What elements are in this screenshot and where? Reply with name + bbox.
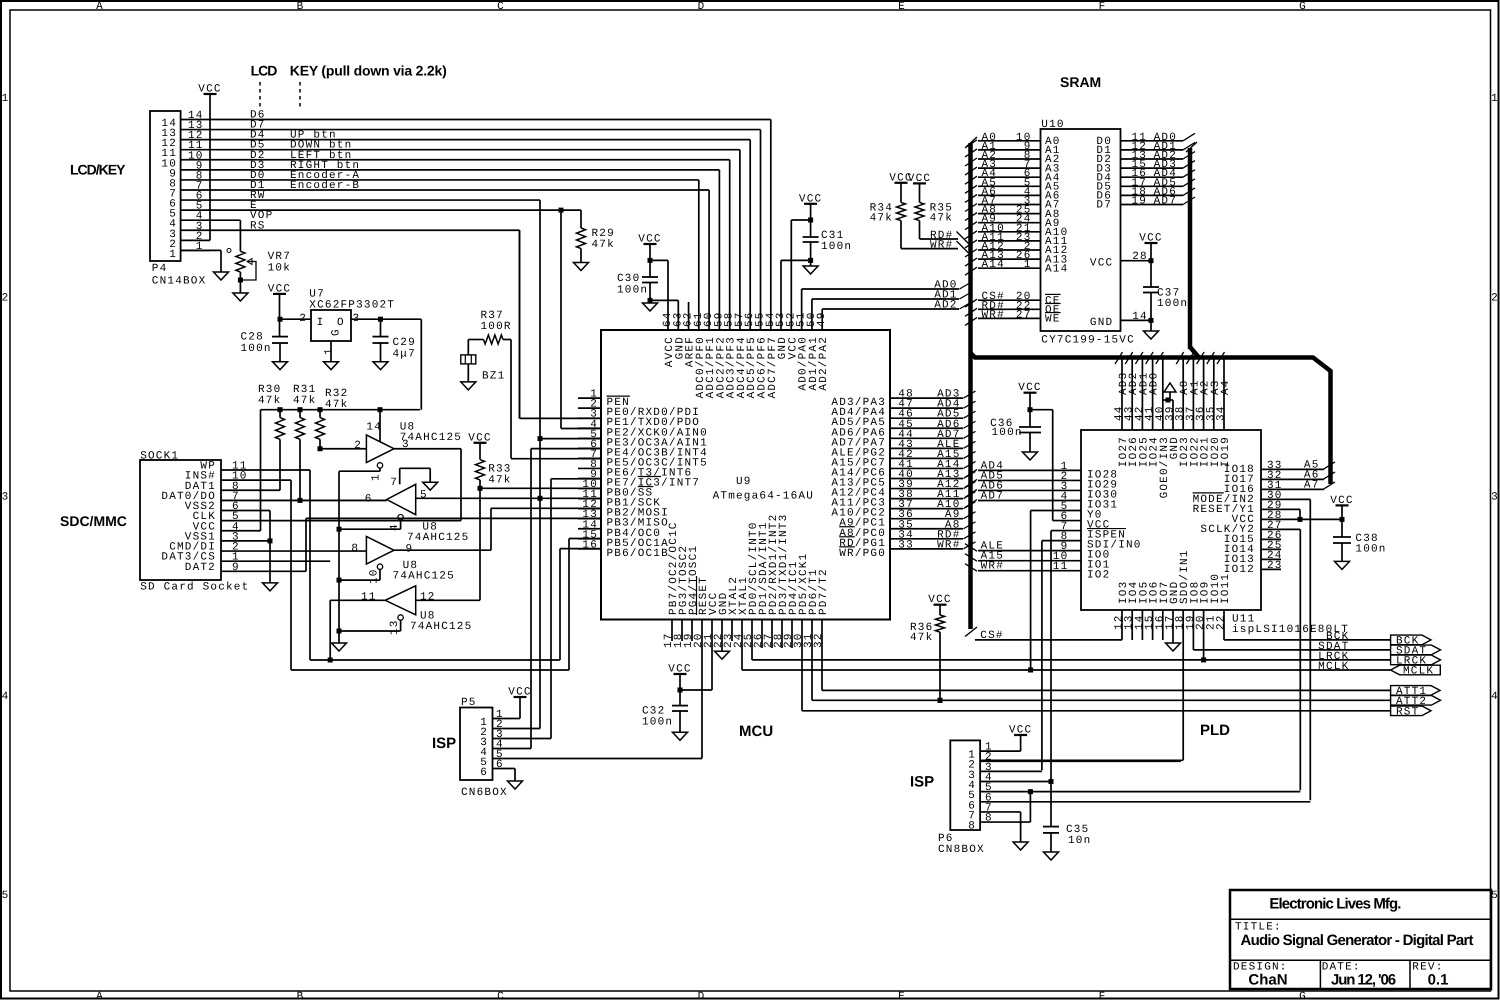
svg-text:27: 27 (1016, 309, 1032, 321)
svg-text:14: 14 (1132, 311, 1148, 323)
svg-text:E: E (898, 991, 906, 1000)
svg-text:ISP: ISP (432, 735, 456, 752)
svg-text:AD0: AD0 (1149, 372, 1161, 395)
svg-text:XC62FP3302T: XC62FP3302T (309, 300, 395, 312)
svg-text:MCLK: MCLK (1318, 661, 1349, 673)
svg-text:C28: C28 (241, 332, 264, 344)
svg-text:2: 2 (354, 440, 362, 452)
svg-text:G: G (1299, 1, 1307, 13)
svg-text:10n: 10n (1068, 835, 1091, 847)
svg-text:12: 12 (420, 592, 436, 604)
svg-text:AD2/PA2: AD2/PA2 (818, 336, 830, 391)
svg-text:A4: A4 (1220, 379, 1232, 395)
svg-text:GND: GND (1090, 317, 1113, 329)
svg-text:CY7C199-15VC: CY7C199-15VC (1041, 335, 1135, 347)
svg-text:74AHC125: 74AHC125 (410, 621, 472, 633)
svg-text:U9: U9 (736, 476, 752, 488)
svg-text:SDC/MMC: SDC/MMC (60, 513, 127, 529)
svg-text:WR#: WR# (982, 309, 1005, 321)
svg-text:4: 4 (1491, 691, 1499, 703)
svg-text:LCD: LCD (251, 63, 278, 79)
svg-text:Electronic Lives Mfg.: Electronic Lives Mfg. (1269, 896, 1401, 913)
svg-text:8: 8 (351, 543, 359, 555)
svg-text:47k: 47k (488, 475, 511, 487)
svg-text:WR/PG0: WR/PG0 (839, 548, 886, 560)
svg-text:WR#: WR# (930, 240, 953, 252)
svg-text:CS#: CS# (980, 630, 1003, 642)
svg-text:P4: P4 (152, 263, 168, 275)
svg-text:D: D (698, 1, 706, 13)
svg-text:2: 2 (1491, 292, 1499, 304)
svg-text:4μ7: 4μ7 (393, 349, 416, 361)
svg-text:8: 8 (968, 821, 976, 833)
svg-text:PLD: PLD (1200, 722, 1230, 739)
svg-text:7: 7 (390, 477, 398, 489)
svg-text:74AHC125: 74AHC125 (407, 532, 469, 544)
svg-text:1: 1 (1024, 259, 1032, 271)
svg-text:RST: RST (1396, 706, 1419, 718)
svg-text:A14: A14 (982, 259, 1005, 271)
svg-text:4: 4 (389, 523, 401, 531)
svg-text:47k: 47k (293, 395, 316, 407)
svg-text:5: 5 (1491, 890, 1499, 902)
svg-text:11: 11 (361, 592, 377, 604)
svg-text:B: B (297, 1, 305, 13)
svg-text:1: 1 (371, 473, 383, 481)
svg-text:47k: 47k (870, 213, 893, 225)
svg-text:3: 3 (2, 492, 10, 504)
svg-text:4: 4 (2, 691, 10, 703)
svg-text:D: D (698, 991, 706, 1000)
svg-text:ChaN: ChaN (1248, 972, 1287, 989)
svg-text:B: B (297, 991, 305, 1000)
svg-text:I: I (317, 317, 325, 329)
svg-text:AD2: AD2 (934, 300, 957, 312)
svg-text:0.1: 0.1 (1428, 972, 1449, 989)
svg-text:CN8BOX: CN8BOX (938, 844, 985, 856)
svg-text:BZ1: BZ1 (482, 371, 505, 383)
svg-text:U10: U10 (1041, 119, 1064, 131)
svg-text:Jun 12, '06: Jun 12, '06 (1331, 972, 1396, 989)
svg-text:G: G (331, 328, 343, 336)
svg-text:3: 3 (1491, 492, 1499, 504)
svg-text:IO2: IO2 (1087, 570, 1110, 582)
svg-text:A: A (96, 1, 104, 13)
svg-text:ATmega64-16AU: ATmega64-16AU (713, 491, 814, 503)
svg-text:47k: 47k (910, 632, 933, 644)
svg-text:F: F (1099, 991, 1107, 1000)
svg-text:2: 2 (2, 292, 10, 304)
svg-text:IO11: IO11 (1220, 573, 1232, 604)
svg-text:KEY (pull down via 2.2k): KEY (pull down via 2.2k) (290, 63, 447, 79)
svg-text:SRAM: SRAM (1060, 74, 1101, 90)
svg-text:10: 10 (369, 568, 381, 584)
svg-text:C: C (497, 1, 505, 13)
svg-text:C: C (497, 991, 505, 1000)
svg-text:CN6BOX: CN6BOX (461, 787, 508, 799)
svg-text:22: 22 (1216, 614, 1228, 630)
svg-text:IO19: IO19 (1220, 436, 1232, 467)
svg-text:CN14BOX: CN14BOX (152, 276, 207, 288)
svg-text:100R: 100R (481, 321, 512, 333)
svg-text:19: 19 (1132, 196, 1148, 208)
svg-text:28: 28 (1132, 251, 1148, 263)
svg-text:C29: C29 (393, 337, 416, 349)
svg-text:74AHC125: 74AHC125 (400, 432, 462, 444)
svg-text:G: G (1299, 991, 1307, 1000)
svg-text:100n: 100n (992, 427, 1023, 439)
svg-text:D7: D7 (1096, 200, 1112, 212)
svg-text:SD Card Socket: SD Card Socket (140, 582, 249, 594)
svg-text:47k: 47k (592, 239, 615, 251)
svg-text:LCD/KEY: LCD/KEY (70, 162, 126, 178)
svg-text:1: 1 (1491, 93, 1499, 105)
svg-text:5: 5 (420, 490, 428, 502)
svg-text:6: 6 (480, 767, 488, 779)
svg-text:100n: 100n (1355, 544, 1386, 556)
svg-text:F: F (1099, 1, 1107, 13)
svg-text:VCC: VCC (1090, 258, 1113, 270)
svg-text:32: 32 (813, 632, 825, 648)
svg-text:13: 13 (389, 619, 401, 635)
svg-text:VR7: VR7 (268, 251, 291, 263)
svg-text:WE: WE (1045, 314, 1061, 326)
svg-text:6: 6 (365, 494, 373, 506)
svg-text:Audio Signal Generator - Digit: Audio Signal Generator - Digital Part (1241, 932, 1474, 949)
svg-text:C30: C30 (617, 273, 640, 285)
svg-text:DAT2: DAT2 (185, 562, 216, 574)
svg-text:MCU: MCU (739, 723, 773, 740)
svg-text:AD7: AD7 (1154, 196, 1177, 208)
svg-text:74AHC125: 74AHC125 (393, 571, 455, 583)
svg-text:PD7/T2: PD7/T2 (818, 568, 830, 615)
svg-text:100n: 100n (617, 285, 648, 297)
svg-text:1: 1 (169, 249, 177, 261)
svg-text:PB6/OC1B: PB6/OC1B (607, 548, 669, 560)
svg-text:1: 1 (324, 347, 336, 355)
svg-text:47k: 47k (325, 399, 348, 411)
svg-text:47k: 47k (930, 213, 953, 225)
svg-text:MCLK: MCLK (1403, 666, 1434, 678)
svg-text:1: 1 (2, 93, 10, 105)
svg-text:100n: 100n (821, 241, 852, 253)
svg-text:P5: P5 (461, 697, 477, 709)
svg-text:10k: 10k (268, 263, 291, 275)
svg-text:34: 34 (1216, 405, 1228, 421)
svg-text:O: O (337, 317, 345, 329)
svg-text:100n: 100n (642, 717, 673, 729)
svg-text:ISP: ISP (910, 774, 934, 791)
svg-text:A14: A14 (1045, 263, 1068, 275)
svg-text:E: E (898, 1, 906, 13)
svg-text:5: 5 (2, 890, 10, 902)
svg-text:47k: 47k (258, 395, 281, 407)
svg-text:A: A (96, 991, 104, 1000)
svg-text:100n: 100n (1157, 298, 1188, 310)
svg-text:SOCK1: SOCK1 (140, 451, 179, 463)
svg-text:100n: 100n (241, 343, 272, 355)
